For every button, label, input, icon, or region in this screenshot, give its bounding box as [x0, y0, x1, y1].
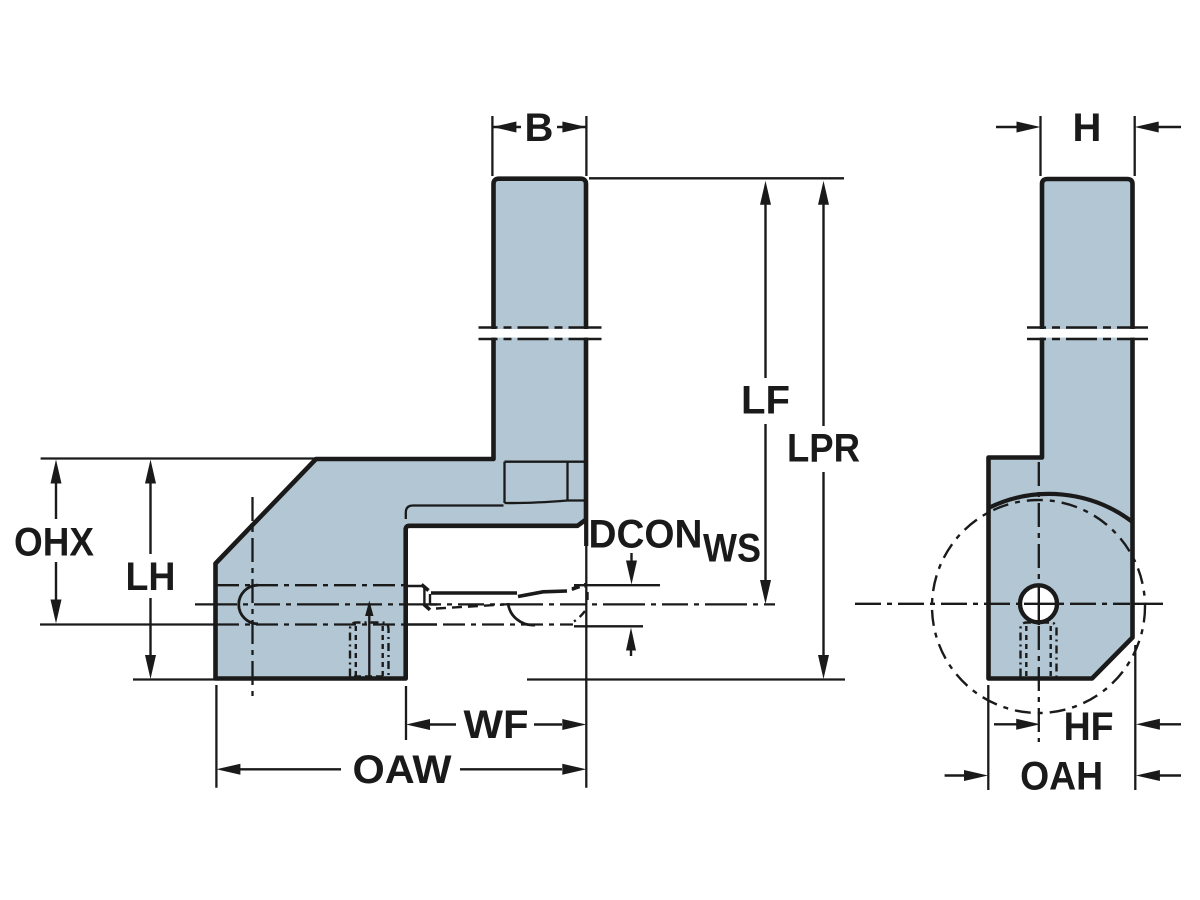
side view vertical centerline [1038, 462, 1040, 742]
insert phantom top edge (thick dashes) [431, 585, 586, 597]
hole crosshair [1024, 603, 1060, 605]
slot end arc (front view) [239, 585, 258, 624]
dimension WF [406, 703, 586, 747]
dimension LPR [787, 181, 860, 679]
dimension HF [994, 705, 1181, 749]
svg-text:OHX: OHX [14, 521, 94, 565]
top reference line for LF/LPR [589, 177, 844, 179]
insert phantom bottom dash [436, 605, 504, 609]
dimension OHX [14, 460, 94, 624]
OAH/HF right extension [1134, 645, 1136, 790]
side view shank break [1027, 328, 1148, 340]
dimension LH [126, 460, 176, 680]
side view horizontal centerline [855, 603, 1130, 605]
front view body outline with shank [216, 179, 587, 679]
dimension OAH [945, 755, 1181, 799]
OAH left extension [987, 685, 989, 790]
WS up arrow [574, 626, 643, 656]
svg-text:LF: LF [741, 379, 790, 423]
svg-text:DCON: DCON [589, 513, 703, 557]
svg-text:B: B [525, 106, 554, 150]
LPR bottom reference line [527, 678, 845, 680]
svg-text:HF: HF [1064, 705, 1114, 749]
OHX bottom reference line [40, 623, 214, 625]
insert nose arc [508, 603, 535, 625]
OHX/LH top reference line [41, 457, 316, 459]
dimension LF [741, 181, 790, 604]
shank break (front view) [479, 328, 602, 340]
OAW left extension [215, 685, 217, 788]
dimension DCON-WS label [589, 513, 762, 571]
seat hook detail [422, 585, 438, 610]
svg-text:LH: LH [126, 555, 176, 599]
WF left extension [405, 686, 407, 740]
dimension H [996, 106, 1181, 176]
LH bottom reference line [133, 678, 215, 680]
front view horizontal centerline [195, 603, 775, 605]
DCON down arrow [574, 553, 660, 585]
pin hole (side view) [1020, 585, 1057, 622]
clamp inner thin lines (under top edge) [505, 462, 585, 503]
insert circle (dash-dot) [932, 500, 1145, 713]
right extension line x=586.3 (DCON/WF/OAW) [584, 520, 588, 546]
pin vertical line with small up arrow [365, 601, 373, 677]
upper seat dash-dot line y=585 [217, 584, 404, 586]
svg-text:LPR: LPR [787, 427, 860, 471]
boss solid arc [989, 494, 1133, 522]
vertical dash-dot slot centerline x=252.5 [251, 497, 253, 701]
spring pin (front view, hidden) [350, 623, 389, 677]
side view body outline [989, 179, 1133, 679]
spring pin (side view, hidden) [1021, 623, 1057, 677]
dimension OAW [216, 748, 586, 792]
recess back-wall thin line [406, 506, 504, 520]
svg-text:WS: WS [703, 527, 761, 571]
svg-text:H: H [1073, 106, 1102, 150]
dimension B [492, 106, 586, 176]
lower seat dash-dot line y=624.5 [217, 623, 404, 625]
seat edge solid at 586 [406, 585, 422, 587]
svg-text:WF: WF [464, 703, 529, 747]
svg-text:OAW: OAW [353, 748, 452, 792]
svg-text:OAH: OAH [1020, 755, 1103, 799]
phantom right-end dashes [572, 586, 588, 621]
